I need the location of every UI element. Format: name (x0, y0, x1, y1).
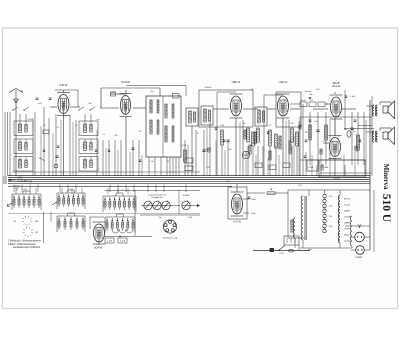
svg-text:0,1μF: 0,1μF (350, 96, 356, 98)
svg-text:50μF: 50μF (251, 199, 256, 201)
svg-text:UY1N: UY1N (233, 220, 240, 224)
svg-text:UCL11: UCL11 (344, 204, 351, 206)
svg-text:Lautstärkeregler 100kOhm: Lautstärkeregler 100kOhm (13, 246, 40, 249)
svg-text:2k: 2k (197, 133, 199, 135)
svg-text:≈220V: ≈220V (334, 177, 341, 180)
svg-text:Lampe: Lampe (344, 240, 351, 242)
svg-text:6JP12: 6JP12 (344, 198, 351, 200)
svg-text:UBF12: UBF12 (232, 80, 241, 84)
svg-text:0,5M: 0,5M (188, 217, 193, 219)
svg-text:2 Band - Widerstandswerte: 2 Band - Widerstandswerte (8, 243, 36, 246)
svg-text:510 U: 510 U (380, 194, 392, 223)
svg-text:10n: 10n (314, 121, 317, 123)
svg-text:UDA42: UDA42 (94, 246, 103, 250)
svg-text:MW: MW (35, 221, 38, 223)
svg-text:6,3V: 6,3V (206, 167, 211, 169)
svg-text:220V~: 220V~ (279, 253, 286, 255)
svg-text:7k: 7k (353, 131, 355, 133)
svg-text:Klangblende: Klangblende (151, 197, 163, 199)
svg-text:0,3M: 0,3M (220, 125, 225, 127)
svg-text:an Erdleitung: an Erdleitung (17, 179, 33, 183)
svg-text:Osz: Osz (96, 119, 100, 121)
svg-text:25k: 25k (138, 131, 141, 133)
svg-text:50k: 50k (114, 135, 117, 137)
svg-text:UAF12: UAF12 (279, 80, 288, 84)
svg-text:50k: 50k (228, 149, 231, 151)
svg-text:UCL11: UCL11 (332, 84, 341, 88)
svg-text:1M: 1M (291, 123, 294, 125)
svg-text:1M: 1M (243, 123, 246, 125)
svg-text:UY1N: UY1N (344, 228, 350, 230)
svg-text:0,1μF: 0,1μF (107, 241, 113, 243)
svg-text:1M: 1M (305, 132, 308, 134)
svg-text:50k: 50k (158, 217, 161, 219)
svg-text:Osz.: Osz. (150, 91, 155, 93)
svg-text:4,5V: 4,5V (17, 176, 23, 180)
svg-text:KW: KW (35, 232, 38, 234)
svg-text:1 Wellensch.- Widerstandswerte: 1 Wellensch.- Widerstandswerte (8, 240, 42, 243)
svg-text:Gerätebuchung: Gerätebuchung (163, 237, 178, 240)
svg-text:0,5M: 0,5M (182, 145, 187, 147)
svg-text:0,5MΩ: 0,5MΩ (183, 195, 190, 197)
svg-text:50μF: 50μF (251, 213, 256, 215)
svg-text:1MΩ: 1MΩ (324, 167, 329, 169)
svg-text:220V: 220V (226, 181, 231, 183)
svg-text:UCH42: UCH42 (121, 80, 131, 84)
svg-text:UBF12: UBF12 (344, 210, 351, 212)
svg-text:Tonabn.: Tonabn. (304, 91, 312, 93)
svg-text:0,1μF: 0,1μF (120, 241, 126, 243)
svg-text:Tonab: Tonab (300, 100, 306, 102)
svg-text:460kHz: 460kHz (205, 87, 212, 89)
svg-text:2 Ausf.: 2 Ausf. (355, 256, 363, 259)
svg-text:LW: LW (13, 221, 16, 223)
svg-text:6JP12: 6JP12 (60, 83, 68, 87)
svg-text:Netz: Netz (308, 248, 312, 251)
svg-text:Minerva: Minerva (382, 164, 390, 190)
svg-text:5k: 5k (297, 145, 299, 147)
svg-text:2x500: 2x500 (27, 119, 33, 121)
svg-text:Skala: Skala (344, 234, 350, 236)
svg-text:150μF: 150μF (308, 167, 314, 169)
